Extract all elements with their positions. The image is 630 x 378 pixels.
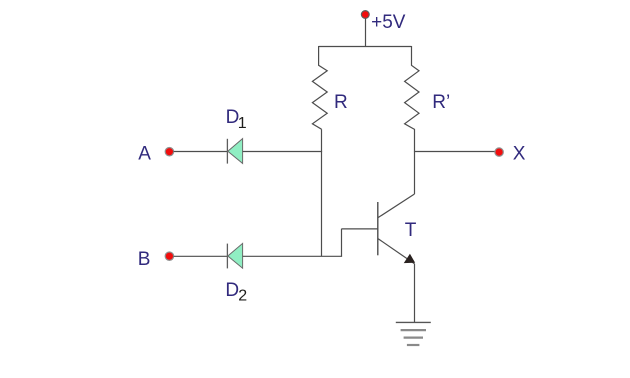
svg-text:X: X (513, 144, 526, 165)
diode D1 (227, 139, 242, 164)
node +5V terminal dot (361, 11, 369, 19)
svg-text:+5V: +5V (371, 12, 406, 33)
ground (396, 322, 431, 345)
resistor R' (405, 46, 419, 152)
svg-text:1: 1 (238, 115, 247, 132)
node B terminal dot (165, 252, 173, 260)
label D1 (226, 107, 247, 132)
wire from R bottom down to B-diode junction (321, 129, 323, 256)
svg-text:A: A (138, 143, 151, 164)
wire base horizontal to transistor (342, 228, 378, 230)
diode D2 (227, 243, 242, 268)
wire from +5V dot to rail (365, 19, 367, 47)
svg-text:R’: R’ (432, 92, 450, 113)
wire from B dot to diode D2 (174, 255, 228, 257)
svg-text:R: R (334, 92, 348, 113)
wire top rail (319, 46, 412, 48)
svg-text:T: T (405, 220, 417, 241)
wire from A dot to diode D1 (174, 151, 228, 153)
wire from diode D2 to base step corner (243, 255, 343, 257)
node A terminal dot (165, 148, 173, 156)
wire output to X dot (415, 151, 496, 153)
svg-text:D: D (225, 280, 239, 301)
wire from diode D1 to node R bottom (243, 151, 323, 153)
wire collector vertical to output node (414, 151, 416, 194)
svg-text:B: B (138, 249, 151, 270)
svg-text:2: 2 (238, 287, 247, 304)
wire emitter vertical to ground (414, 264, 416, 322)
transistor T (378, 194, 415, 264)
wire base step vertical (341, 229, 343, 257)
resistor R (312, 46, 327, 129)
node X terminal dot (495, 148, 503, 156)
label D2 (225, 280, 247, 304)
